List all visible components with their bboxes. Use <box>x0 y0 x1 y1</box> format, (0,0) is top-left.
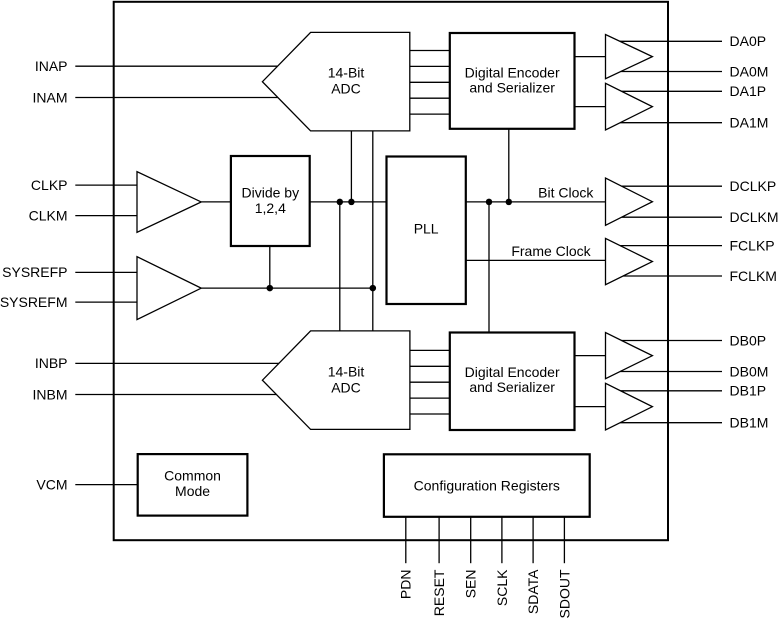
clock input buffer (CLKP/CLKM) <box>137 172 201 233</box>
wire: SCLK pin stub <box>501 517 503 563</box>
wire: INBM input <box>75 394 276 396</box>
svg-text:Configuration Registers: Configuration Registers <box>414 478 560 494</box>
wire: bit clock from PLL <box>466 201 606 203</box>
junction: SYSREF to ADC vertical <box>370 285 377 292</box>
wire: bit clock up to serializer A <box>508 129 510 202</box>
Common Mode block <box>138 454 248 515</box>
junction: bit clock to serializer B <box>486 199 493 206</box>
wire: ADC B data bus bit 1 <box>410 365 450 367</box>
wire: SYSREF up into divider <box>269 246 271 288</box>
wire: DA0P output <box>620 40 722 42</box>
wire: DA1P output <box>622 90 722 92</box>
Digital Encoder and Serializer A U2 <box>450 33 575 129</box>
svg-text:Bit Clock: Bit Clock <box>538 184 594 200</box>
wire: DCLKM output <box>622 216 722 218</box>
svg-text:DCLKP: DCLKP <box>730 178 777 194</box>
wire: FCLKM output <box>623 275 722 277</box>
svg-text:SDATA: SDATA <box>525 569 541 614</box>
svg-text:DB1P: DB1P <box>730 383 767 399</box>
wire: ADC B data bus bit 4 <box>410 413 450 415</box>
svg-text:VCM: VCM <box>36 476 67 492</box>
svg-text:SYSREFM: SYSREFM <box>0 294 68 310</box>
svg-text:INAM: INAM <box>33 89 68 105</box>
IC boundary (device outline) <box>114 2 668 540</box>
PLL <box>387 157 466 305</box>
SYSREF input buffer (SYSREFP/SYSREFM) <box>137 257 201 320</box>
wire: DB1P output <box>621 390 722 392</box>
svg-text:CLKP: CLKP <box>31 177 68 193</box>
svg-text:RESET: RESET <box>431 569 447 616</box>
wire: SEN pin stub <box>470 517 472 563</box>
wire: SDOUT pin stub <box>563 517 565 563</box>
svg-text:Common: Common <box>164 468 221 484</box>
wire: serializer B to DB0 buffer <box>575 355 606 357</box>
wire: FCLKP output <box>620 245 722 247</box>
wire: ADC A data bus bit 1 <box>410 65 450 67</box>
ADC A (14-Bit ADC, channel A) U1 <box>262 32 409 130</box>
junction: SYSREF to divider <box>267 285 274 292</box>
svg-text:1,2,4: 1,2,4 <box>255 200 286 216</box>
wire: ADC A data bus bit 0 <box>410 50 450 52</box>
svg-text:DA1P: DA1P <box>730 83 767 99</box>
svg-text:14-Bit: 14-Bit <box>328 65 365 81</box>
svg-text:INBM: INBM <box>33 386 68 402</box>
svg-text:SDOUT: SDOUT <box>556 569 572 618</box>
wire: serializer B to DB1 buffer <box>575 406 606 408</box>
svg-text:DB1M: DB1M <box>730 415 769 431</box>
svg-text:PLL: PLL <box>414 221 439 237</box>
wire: divider output to PLL <box>310 201 387 203</box>
wire: serializer A to DA0 buffer <box>575 56 606 58</box>
wire: ADC B data bus bit 0 <box>410 349 450 351</box>
LVDS output buffer DA1 <box>606 83 653 130</box>
wire: SYSREFM input <box>75 301 137 303</box>
wire: ADC A data bus bit 3 <box>410 97 450 99</box>
Configuration Registers block <box>384 454 590 517</box>
wire: CLKP input <box>75 184 137 186</box>
svg-text:DB0P: DB0P <box>730 332 767 348</box>
wire: frame clock from PLL <box>466 259 606 261</box>
wire: CLKM input <box>75 215 137 217</box>
LVDS output buffer DB1 <box>606 383 653 430</box>
svg-text:ADC: ADC <box>331 81 361 97</box>
frame clock output buffer FCLK <box>606 238 653 284</box>
wire: ADC B data bus bit 2 <box>410 381 450 383</box>
wire: DB0P output <box>622 340 722 342</box>
svg-text:and Serializer: and Serializer <box>469 379 555 395</box>
wire: clock buffer to divider <box>201 201 231 203</box>
junction: bit clock to serializer A <box>506 199 513 206</box>
wire: SYSREF distribution <box>201 287 373 289</box>
Digital Encoder and Serializer B U4 <box>450 333 575 431</box>
LVDS output buffer DA0 <box>606 35 653 79</box>
wire: INBP input <box>75 362 279 364</box>
wire: INAM input <box>75 97 278 99</box>
clock output buffer DCLK <box>606 178 653 225</box>
svg-text:SEN: SEN <box>463 570 479 599</box>
svg-text:DB0M: DB0M <box>730 363 769 379</box>
wire: sample clock down to ADC B <box>339 202 341 331</box>
svg-text:FCLKP: FCLKP <box>730 237 775 253</box>
wire: INAP input <box>75 65 277 67</box>
svg-text:and Serializer: and Serializer <box>469 79 555 95</box>
wire: SDATA pin stub <box>532 517 534 563</box>
wire: PDN pin stub <box>405 517 407 563</box>
wire: RESET pin stub <box>438 517 440 563</box>
ADC B (14-Bit ADC, channel B) U3 <box>262 331 410 430</box>
wire: DA0M output <box>621 71 722 73</box>
svg-text:INBP: INBP <box>35 355 68 371</box>
wire: DB0M output <box>620 371 722 373</box>
svg-text:SYSREFP: SYSREFP <box>2 264 67 280</box>
svg-text:DA1M: DA1M <box>730 115 769 131</box>
svg-text:INAP: INAP <box>35 58 68 74</box>
svg-text:Divide by: Divide by <box>242 184 300 200</box>
svg-text:Frame Clock: Frame Clock <box>511 243 591 259</box>
wire: DB1M output <box>620 422 722 424</box>
wire: DA1M output <box>620 122 722 124</box>
wire: DCLKP output <box>622 185 722 187</box>
wire: VCM input <box>75 484 137 486</box>
svg-text:FCLKM: FCLKM <box>730 268 777 284</box>
svg-text:Digital Encoder: Digital Encoder <box>465 64 560 80</box>
svg-text:DA0P: DA0P <box>730 33 767 49</box>
wire: ADC A data bus bit 2 <box>410 81 450 83</box>
wire: sample clock up to ADC A <box>350 131 352 202</box>
svg-text:DCLKM: DCLKM <box>730 209 778 225</box>
wire: ADC B data bus bit 3 <box>410 397 450 399</box>
clock divider (Divide by 1,2,4) <box>231 156 310 246</box>
LVDS output buffer DB0 <box>606 333 653 379</box>
wire: bit clock down to serializer B <box>488 202 490 333</box>
svg-text:Digital Encoder: Digital Encoder <box>465 364 560 380</box>
svg-text:14-Bit: 14-Bit <box>328 363 365 379</box>
wire: ADC A data bus bit 4 <box>410 113 450 115</box>
svg-text:CLKM: CLKM <box>29 207 68 223</box>
svg-text:Mode: Mode <box>175 483 210 499</box>
svg-text:PDN: PDN <box>398 570 414 600</box>
junction: ADC B clock tap <box>337 199 344 206</box>
wire: SYSREFP input <box>75 271 137 273</box>
svg-text:ADC: ADC <box>331 380 361 396</box>
wire: SYSREF vertical ADC A to ADC B <box>372 131 374 331</box>
svg-text:SCLK: SCLK <box>494 569 510 606</box>
junction: ADC A clock tap <box>348 199 355 206</box>
svg-text:DA0M: DA0M <box>730 63 769 79</box>
wire: serializer A to DA1 buffer <box>575 106 606 108</box>
